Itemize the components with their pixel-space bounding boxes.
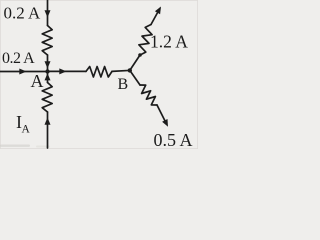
wire node A down to resistor <box>47 72 49 83</box>
current arrow 0.2 A into node A <box>45 61 51 68</box>
wire top vertical into resistor <box>47 0 49 26</box>
edge vignette <box>0 0 197 148</box>
current arrow I_A up into node A <box>45 73 51 80</box>
wire node A to resistor R <box>48 70 87 72</box>
wire to 0.5 A arrow <box>157 105 166 123</box>
resistor left vertical (0.2 A branch) <box>42 26 52 56</box>
current arrow 0.5 A down-right <box>162 119 168 127</box>
junction dot on 1.2 A branch <box>138 53 142 57</box>
resistor 0.5 A branch <box>140 85 157 105</box>
svg-text:1.2 A: 1.2 A <box>150 32 188 52</box>
wire to 1.2 A arrow <box>151 9 160 25</box>
current arrow right (left wire into A) <box>19 69 26 75</box>
node A <box>45 69 49 73</box>
paper background <box>0 0 198 149</box>
current arrow 0.2 A down (top wire) <box>45 10 51 17</box>
svg-text:0.5 A: 0.5 A <box>154 130 193 149</box>
svg-text:B: B <box>118 76 129 93</box>
svg-text:0.2 A: 0.2 A <box>4 4 42 23</box>
scan smudge bottom-left <box>0 145 30 147</box>
wire resistor to node B <box>112 70 130 71</box>
wire left horizontal into node A <box>0 71 48 73</box>
resistor 1.2 A branch <box>139 25 152 56</box>
current arrow I_A up (bottom wire) <box>45 118 51 125</box>
resistor R between A and B <box>86 67 112 78</box>
node B <box>128 68 132 72</box>
resistor I_A branch <box>42 83 52 113</box>
wire resistor to node A <box>47 55 49 72</box>
svg-text:A: A <box>31 71 44 91</box>
wire node B down-right <box>130 70 140 85</box>
wire bottom vertical <box>47 112 49 148</box>
wire node B up-right <box>130 55 140 70</box>
current arrow 1.2 A up-right <box>155 7 161 15</box>
current arrow right (A toward B) <box>59 68 66 74</box>
svg-text:0.2 A: 0.2 A <box>2 50 35 67</box>
